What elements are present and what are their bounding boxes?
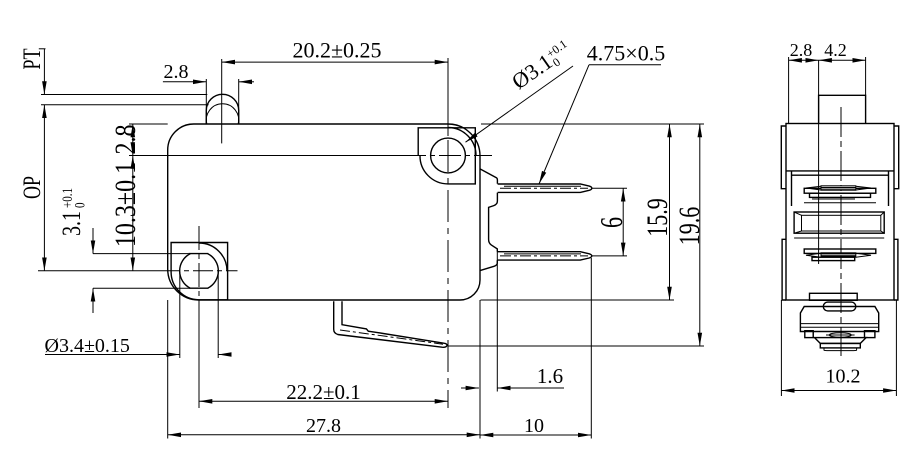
hole center horizontal (top-right) + 2.8/10.3 extension	[129, 155, 404, 157]
svg-text:PT: PT	[17, 49, 46, 70]
svg-text:0: 0	[72, 203, 88, 208]
top-right boss cylinder arc	[448, 128, 476, 156]
common terminal (bent lever at bottom)	[334, 301, 447, 347]
side bottom step blocks	[805, 331, 813, 338]
terminal 2	[498, 252, 592, 260]
svg-text:10.2: 10.2	[826, 366, 861, 388]
svg-text:2.8: 2.8	[164, 61, 189, 83]
bottom-left mounting boss	[171, 243, 228, 300]
terminal 1	[498, 184, 592, 192]
side lower tab right	[894, 239, 898, 300]
side bottom slot lens	[829, 333, 851, 338]
svg-text:1.6: 1.6	[537, 364, 563, 388]
svg-text:20.2±0.25: 20.2±0.25	[292, 38, 381, 63]
PT reference line pressed position	[41, 104, 209, 106]
svg-text:6: 6	[594, 217, 629, 228]
side bottom terminal plate	[810, 293, 858, 300]
leader Ø3.1 +0.1/0	[507, 36, 576, 95]
svg-text:2.8: 2.8	[790, 40, 813, 60]
side plunger	[819, 95, 866, 123]
PT reference line free position	[41, 94, 207, 96]
side terminal 1 cross-section	[804, 188, 876, 193]
svg-text:10.3±0.1: 10.3±0.1	[108, 162, 141, 247]
hole centerline vertical (top-right)	[447, 58, 449, 136]
side terminal 2 cross-section	[804, 249, 876, 253]
svg-text:10: 10	[524, 415, 544, 437]
bottom hole center horizontal / OP extension	[38, 270, 160, 272]
dimension OP	[43, 105, 45, 271]
bottom-left boss cylinder arc	[199, 243, 227, 271]
side shelf	[792, 171, 889, 206]
svg-text:27.8: 27.8	[306, 415, 341, 437]
switch body outline (front view)	[168, 124, 480, 300]
svg-text:3.1: 3.1	[58, 211, 87, 236]
bottom hole centerline vertical	[198, 226, 200, 300]
side top block bottom edge	[786, 170, 894, 172]
side middle boss	[804, 202, 876, 204]
svg-text:Ø3.4±0.15: Ø3.4±0.15	[45, 335, 130, 357]
svg-text:4.75×0.5: 4.75×0.5	[587, 41, 665, 66]
hole flat bottom	[189, 287, 209, 289]
plunger centerline / 20.2 extension	[221, 59, 223, 143]
terminal tip extension (19.6 bottom)	[448, 345, 704, 347]
svg-text:4.2: 4.2	[824, 40, 847, 60]
side bottom cap	[820, 343, 860, 348]
hole flat top	[189, 253, 209, 255]
side lower tab left	[782, 239, 786, 300]
side body main outline	[786, 124, 894, 301]
side bottom block	[800, 307, 878, 332]
plunger pressed-position arc	[206, 104, 238, 124]
svg-text:15.9: 15.9	[641, 198, 674, 236]
top-right hole (Ø3.1)	[431, 138, 466, 173]
side 2.8 extension through body	[818, 60, 820, 264]
top-right mounting boss	[418, 128, 475, 184]
dimension PT	[43, 49, 45, 95]
svg-text:22.2±0.1: 22.2±0.1	[286, 380, 361, 404]
plunger button (front view)	[206, 94, 238, 124]
dimension 3.1 +0.1/0	[58, 188, 88, 236]
side upper tab right	[894, 126, 899, 189]
body bottom extension right	[481, 299, 675, 301]
svg-text:OP: OP	[17, 176, 46, 199]
side bottom stadium slot	[823, 302, 856, 311]
bottom-left hole (Ø3.4 double-D)	[180, 254, 219, 289]
svg-text:2.8: 2.8	[108, 125, 141, 155]
body top extension right	[481, 123, 704, 125]
terminal support rib	[480, 169, 497, 271]
body top edge extension left	[129, 123, 168, 125]
side upper tab left	[781, 126, 786, 189]
side bottom trapezoid	[815, 338, 867, 344]
side plunger centerline	[840, 107, 842, 356]
svg-text:19.6: 19.6	[673, 207, 706, 245]
